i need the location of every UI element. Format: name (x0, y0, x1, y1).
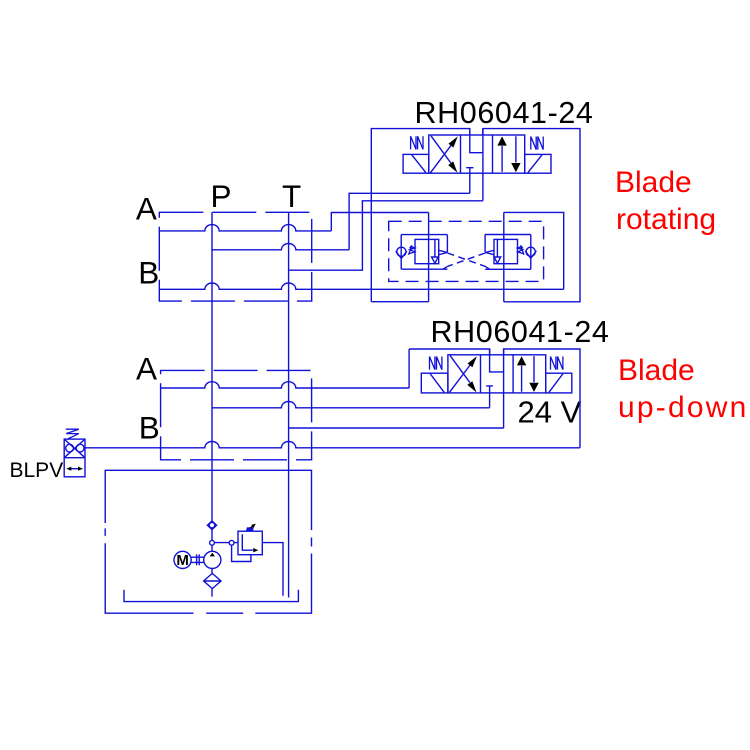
wire A2 riser (408, 349, 410, 388)
suction filter (204, 573, 221, 588)
U2 left cell crossed arrows (450, 356, 471, 393)
CB1 pilot line (dashed cross) (448, 253, 486, 266)
U2 right cell flow arrows (522, 356, 534, 392)
RV internal flow path (242, 534, 253, 550)
wire A1 riser (331, 213, 428, 231)
CB2 check valve bypass loop (485, 235, 531, 270)
node circle on pilot wire (229, 540, 234, 545)
relief valve RV body (238, 531, 262, 555)
U2 center cell P-T symbol (486, 349, 503, 428)
RV tank return wire (262, 543, 283, 596)
RV adjustment spring wedge (246, 527, 254, 531)
svg-text:RH06041-24: RH06041-24 (431, 315, 610, 349)
svg-text:Blade: Blade (618, 354, 695, 387)
B channel through overcenter valve (503, 212, 505, 301)
svg-text:T: T (282, 178, 301, 214)
svg-text:BLPV: BLPV (10, 459, 64, 482)
pilot wire to relief valve (214, 542, 238, 544)
CB1 pilot port (439, 235, 448, 255)
CB2 pilot line (dashed cross) (448, 253, 486, 266)
wire B1 work line (hops over P,T) (159, 283, 563, 289)
BLPV shuttle cell X (64, 439, 85, 458)
svg-text:RH06041-24: RH06041-24 (415, 96, 594, 130)
wire A2 work line (hops over P,T) (161, 382, 409, 388)
RV pilot loop (232, 545, 251, 562)
U2 right solenoid (546, 373, 572, 393)
A channel through overcenter valve (428, 213, 430, 302)
svg-text:Blade: Blade (615, 166, 692, 199)
wire P1 branch (hop over T) (212, 244, 349, 250)
wire B2 work line (hops over P,T) (85, 442, 580, 448)
tank (124, 590, 298, 602)
hydraulic pump (204, 551, 221, 568)
node circle on P line (210, 540, 215, 545)
wire P supply vertical (211, 212, 213, 596)
solenoid valve U2 body (448, 355, 546, 393)
CB2 pilot port (485, 235, 494, 255)
wire T return vertical (288, 212, 290, 597)
U1 left coil symbol NN (411, 136, 423, 149)
wire T2 branch (289, 427, 504, 429)
svg-text:M: M (176, 552, 189, 569)
U2 left solenoid (421, 373, 448, 393)
svg-text:up-down: up-down (618, 391, 748, 424)
wire P2 branch (hop over T) (212, 402, 490, 408)
U1 right cell flow arrows (502, 136, 516, 172)
wire A1 work line (hops over P,T) (159, 225, 331, 231)
svg-text:rotating: rotating (616, 203, 716, 236)
CB2 spring (518, 246, 524, 253)
svg-text:B: B (138, 255, 159, 291)
motor-pump shaft coupling (191, 554, 204, 565)
CB1 check ball (397, 247, 406, 256)
svg-text:24 V: 24 V (518, 395, 582, 430)
U2 right coil symbol NN (551, 357, 563, 370)
U1 right coil symbol NN (531, 137, 543, 150)
overcenter valve CB1 body (415, 239, 439, 263)
A channel loop bottom (371, 301, 428, 303)
counterbalance section dashed box (389, 221, 544, 281)
svg-text:A: A (136, 190, 157, 226)
U2 left coil symbol NN (430, 357, 442, 370)
CB1 check valve bypass loop (401, 235, 447, 270)
valve block 2 top-right + right edge (504, 349, 580, 448)
solenoid valve U1 body (429, 135, 525, 173)
wire B1 riser (504, 212, 564, 289)
valve block 1 left edge (371, 129, 470, 302)
U1 left solenoid (403, 154, 429, 173)
electric motor M (174, 551, 191, 568)
overcenter valve CB2 body (494, 239, 518, 263)
wire P1 staircase (349, 193, 470, 250)
BLPV valve body (64, 439, 85, 477)
U1 center cell P-T symbol (466, 129, 483, 201)
RV adjustment arrow (251, 525, 255, 528)
valve block 2 top-left edge (409, 349, 490, 355)
manifold 2 dashed body (161, 370, 312, 459)
svg-text:B: B (139, 410, 160, 446)
svg-text:P: P (211, 178, 232, 214)
valve block 1 right edge (483, 129, 580, 302)
manifold 1 dashed body (159, 212, 311, 301)
U1 right solenoid (525, 154, 551, 173)
check valve at pump outlet (207, 521, 216, 530)
CB1 spring (409, 246, 415, 253)
wire T1 branch (289, 201, 483, 270)
svg-text:A: A (136, 350, 157, 386)
U1 left cell crossed arrows (430, 136, 451, 173)
BLPV spring (66, 429, 79, 439)
BLPV orifice cell double arrow (69, 468, 82, 470)
CB2 check ball (526, 247, 535, 256)
power unit enclosure (long-dash) (105, 470, 311, 613)
